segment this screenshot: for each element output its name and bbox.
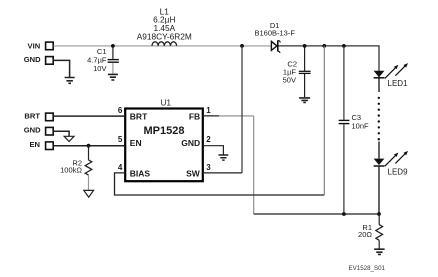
svg-text:SW: SW <box>186 168 201 178</box>
ground (input GND) <box>65 78 75 84</box>
svg-text:MP1528: MP1528 <box>144 125 185 137</box>
svg-text:BRT: BRT <box>24 111 40 120</box>
wire output rail <box>278 46 379 71</box>
node BIAS junction <box>322 44 326 48</box>
port VIN <box>28 42 54 51</box>
pin 1 <box>206 106 211 115</box>
svg-text:EV1528_S01: EV1528_S01 <box>349 265 386 272</box>
node C2 junction <box>303 44 307 48</box>
wire BIAS pin 4 <box>115 173 325 195</box>
svg-text:BIAS: BIAS <box>130 168 151 178</box>
svg-text:1: 1 <box>206 106 211 115</box>
port GND (logic) <box>24 126 53 135</box>
LED string dots <box>378 97 380 141</box>
svg-text:2: 2 <box>206 135 211 144</box>
wire FB pin 1 <box>203 115 254 117</box>
svg-text:100kΩ: 100kΩ <box>60 165 82 174</box>
capacitor C2 <box>283 46 311 97</box>
diode D1 <box>254 21 295 53</box>
svg-text:10V: 10V <box>93 64 106 73</box>
ground triangle (logic GND) <box>64 136 74 141</box>
LED9 <box>374 142 408 215</box>
svg-text:GND: GND <box>24 126 41 135</box>
node C1/VIN junction <box>111 44 115 48</box>
ground (pin 2) <box>219 155 229 160</box>
svg-text:10nF: 10nF <box>352 121 370 130</box>
svg-text:4: 4 <box>118 163 123 172</box>
ground (R1) <box>374 249 384 254</box>
svg-text:20Ω: 20Ω <box>358 230 372 239</box>
port GND (input) <box>24 55 53 64</box>
wire BRT to pin 6 <box>53 115 125 117</box>
svg-text:LED9: LED9 <box>388 167 409 176</box>
wire GND pin 2 <box>203 146 224 155</box>
pin 6 <box>118 106 123 115</box>
chip U1 MP1528 <box>125 99 203 182</box>
wire FB vertical <box>253 116 255 214</box>
wire GND to ground <box>53 60 69 77</box>
node SW junction <box>240 44 244 48</box>
port BRT <box>24 111 53 120</box>
svg-text:GND: GND <box>181 138 200 148</box>
svg-text:U1: U1 <box>161 99 172 108</box>
pin 5 <box>118 135 123 144</box>
svg-text:50V: 50V <box>283 76 296 85</box>
schematic id label <box>349 265 386 272</box>
svg-text:FB: FB <box>189 112 200 122</box>
ground (C1) <box>108 74 118 80</box>
resistor R1 <box>358 214 382 249</box>
ground triangle (R2) <box>84 190 94 197</box>
pin 3 <box>206 163 211 172</box>
LED1 <box>374 63 408 92</box>
svg-text:A918CY-6R2M: A918CY-6R2M <box>137 31 192 41</box>
wire GND to triangle ground <box>53 131 69 136</box>
pin 4 <box>118 163 123 172</box>
node LED/R1 junction <box>377 212 381 216</box>
svg-text:6: 6 <box>118 106 123 115</box>
svg-text:3: 3 <box>206 163 211 172</box>
node C3 bottom junction <box>342 212 346 216</box>
svg-text:BRT: BRT <box>130 112 148 122</box>
svg-text:EN: EN <box>130 138 142 148</box>
wire SW vertical <box>241 46 243 173</box>
node EN/R2 junction <box>87 144 91 148</box>
svg-text:B160B-13-F: B160B-13-F <box>254 29 295 38</box>
svg-text:VIN: VIN <box>28 42 41 51</box>
svg-text:EN: EN <box>29 140 40 149</box>
node C3 junction <box>342 44 346 48</box>
wire SW pin 3 <box>203 172 242 174</box>
inductor L1 <box>137 6 192 46</box>
ground (C2) <box>299 98 310 103</box>
svg-text:5: 5 <box>118 135 123 144</box>
wire FB bottom horizontal <box>254 213 379 215</box>
svg-text:GND: GND <box>24 55 41 64</box>
wire VIN rail <box>53 45 271 47</box>
resistor R2 <box>60 146 92 190</box>
port EN <box>29 140 53 149</box>
capacitor C1 <box>87 46 119 74</box>
pin 2 <box>206 135 211 144</box>
wire BIAS vertical <box>323 46 325 195</box>
wire EN to pin 5 <box>53 145 125 147</box>
svg-text:LED1: LED1 <box>388 79 409 88</box>
capacitor C3 <box>339 46 369 214</box>
